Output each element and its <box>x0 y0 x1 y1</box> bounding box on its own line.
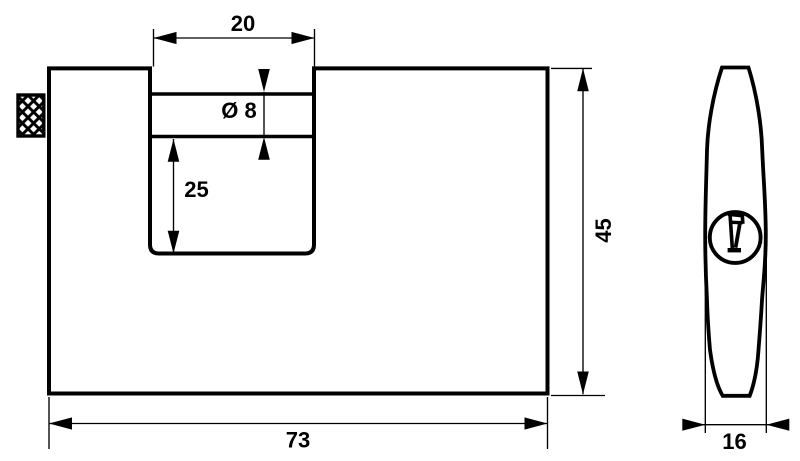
dim Ø8: connecting line <box>263 92 265 137</box>
svg-text:45: 45 <box>591 218 616 242</box>
dim 73: left arrow <box>49 417 72 429</box>
dim 16: right extension line <box>765 235 767 433</box>
dim 73: right extension line <box>547 397 549 449</box>
shackle section (cross-hatched stub on left) <box>18 95 44 136</box>
svg-text:Ø 8: Ø 8 <box>221 98 256 123</box>
dim 16: left arrow (outside, pointing right) <box>682 419 705 431</box>
dim Ø8: upper arrow (pointing down) <box>258 69 270 92</box>
dim 25: bottom arrow (pointing down) <box>168 231 180 254</box>
dim 20: right extension line <box>314 29 316 67</box>
shackle top line (Ø8 bore, upper) <box>150 92 314 96</box>
dim 20: dimension line <box>154 37 315 39</box>
dim 45: dimension line <box>582 68 584 394</box>
key symbol inside escutcheon <box>730 214 743 250</box>
dim 16: left extension line <box>704 235 706 433</box>
dim 73: left extension line <box>48 397 50 449</box>
dim 16: right arrow (outside, pointing left) <box>766 419 789 431</box>
dim 45: top extension line <box>551 67 592 69</box>
dim 16: dimension line <box>688 424 788 426</box>
padlock body outline (front view, 73 x 45 with shackle notch) <box>49 68 548 393</box>
dim 45: bottom extension line <box>551 395 605 397</box>
keyhole escutcheon circle <box>710 212 761 263</box>
dim Ø8: lower arrow (pointing up) <box>258 137 270 160</box>
dim 45: bottom arrow <box>577 372 589 395</box>
svg-text:20: 20 <box>231 11 255 36</box>
dim 25: dimension line <box>173 139 175 254</box>
shackle bottom line (Ø8 bore, lower) <box>150 135 314 139</box>
dim 73: right arrow <box>525 417 548 429</box>
dim 45: top arrow <box>577 68 589 91</box>
dim 73: dimension line <box>49 423 548 425</box>
dim 20: left arrow <box>154 32 177 44</box>
dim 20: right arrow <box>292 32 315 44</box>
svg-text:25: 25 <box>184 177 208 202</box>
svg-text:73: 73 <box>286 428 310 453</box>
side view body (lens profile) <box>705 68 766 396</box>
svg-text:16: 16 <box>722 429 746 454</box>
dim 20: left extension line <box>153 29 155 67</box>
dim 25: top arrow (pointing up) <box>168 139 180 162</box>
